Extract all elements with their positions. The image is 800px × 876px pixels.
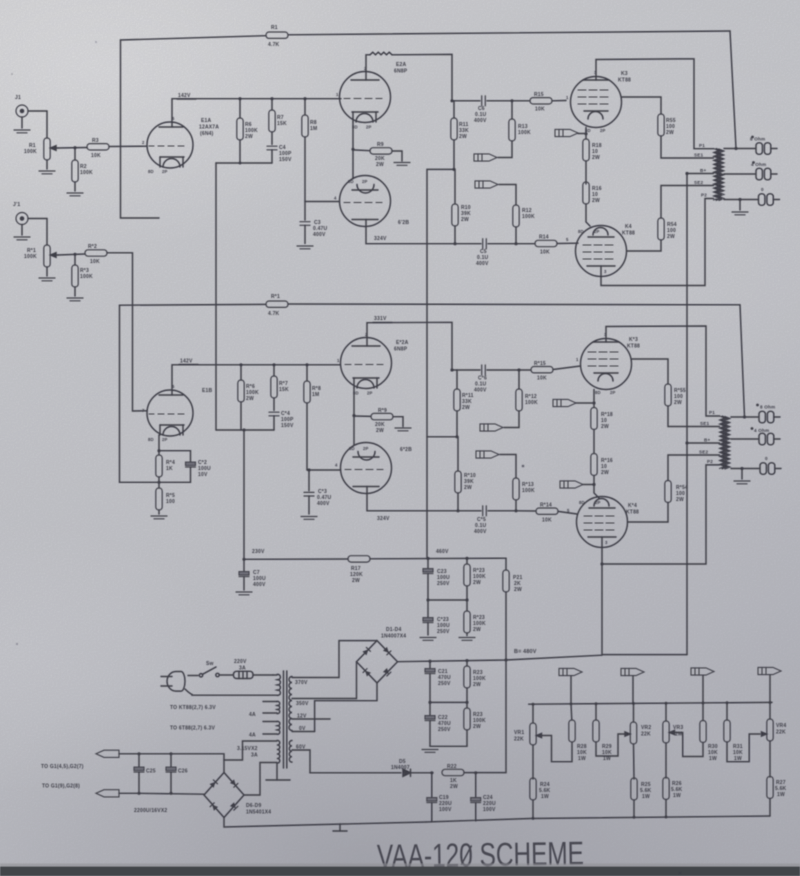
capacitor C'5: [474, 506, 516, 535]
title VAA-120 SCHEME: [377, 834, 585, 874]
wire B+ node ch2: [216, 429, 274, 431]
resistor R2: [72, 148, 93, 191]
capacitor C6: [452, 96, 512, 124]
tap 0V: [292, 726, 315, 732]
node mid 480V stack: [430, 701, 467, 703]
heater winding KT88: [170, 701, 280, 718]
resistor R29: [593, 704, 628, 762]
feedback rail R*1 resistor: [120, 294, 741, 317]
resistor R28: [569, 704, 587, 762]
terminal 8 Ohm: [750, 136, 777, 155]
switch Sw: [188, 661, 219, 677]
LV winding 3.15Vx2: [237, 740, 280, 763]
resistor R11: [451, 101, 469, 170]
wire V2B grid: [305, 201, 340, 203]
tap 12V: [292, 714, 330, 720]
wire K'4 g2 to R'54: [628, 503, 669, 523]
bias secondary winding: [289, 741, 292, 763]
wire 4 ohm tap ch2: [731, 438, 758, 440]
wire wiper ch2: [58, 254, 85, 255]
tube V'2A upper triode: [337, 332, 392, 396]
wire LV to bridge right: [244, 763, 277, 796]
wire 4 ohm tap: [724, 173, 755, 175]
resistor R26: [663, 743, 683, 817]
connector to R'13: [476, 451, 499, 458]
ground R'9 return: [395, 428, 411, 431]
wire R'2 to V1B grid: [107, 253, 147, 411]
resistor R1 4.7K feedback: [121, 25, 731, 48]
connector TO G1(9),G2(8): [42, 784, 139, 797]
tube V1A 12AX7: [142, 116, 193, 174]
potentiometer VR4: [762, 703, 787, 742]
connector bias 2: [621, 668, 644, 703]
resistor R'4: [156, 455, 175, 488]
resistor P21: [503, 558, 523, 660]
wire V'2B plate to C'5: [367, 493, 481, 511]
transformer T1 output: [714, 149, 725, 201]
wire 460V rail: [370, 557, 506, 560]
resistor R'5: [156, 488, 175, 514]
tap 60V bias: [292, 745, 401, 773]
ground under R*23: [459, 638, 475, 641]
capacitor C4: [267, 145, 292, 163]
wire K'3 plate to P1: [606, 326, 720, 416]
wire K3 plate to P1: [596, 59, 714, 149]
capacitor C25: [134, 754, 156, 794]
resistor R'11: [454, 370, 474, 437]
ground under C7: [236, 592, 252, 595]
tube K'4 KT88 lower inverted: [567, 497, 628, 548]
node dots on 142V rail: [238, 97, 241, 100]
bias rail bottom: [426, 816, 770, 822]
resistor R'8: [304, 365, 321, 470]
potentiometer R1: [24, 138, 58, 169]
capacitor C5: [476, 239, 516, 267]
wire V2A plate with grid-stopper zigzag: [366, 52, 452, 101]
ground R9 return: [394, 163, 410, 166]
resistor R9: [353, 142, 402, 168]
heater winding 6T88: [170, 721, 280, 738]
tap 370V: [292, 641, 377, 686]
tube V1B 12AX7: [142, 384, 193, 442]
wire 230V drop ch2: [243, 430, 245, 559]
wire feedback to 8ohm ch2: [740, 305, 745, 417]
wire to 460V drop: [427, 169, 454, 558]
wire B+ main vertical: [686, 174, 688, 444]
node mid 460V stack: [428, 599, 467, 601]
wire K3 cathode: [585, 128, 587, 140]
resistor R'3: [72, 254, 93, 296]
resistor R7: [269, 99, 287, 145]
tube V2B lower triode inverted: [334, 176, 391, 227]
connector bias 4: [758, 667, 781, 702]
wire K4 g2 to R54: [627, 240, 661, 251]
wire V1B plate to rail: [172, 365, 340, 391]
feedback wire vertical ch1: [121, 40, 160, 218]
terminal 4 Ohm ch2: [751, 427, 780, 445]
ground under R'5: [151, 516, 167, 519]
connector bias 1: [559, 668, 582, 704]
wire V2A cathode chain: [352, 122, 354, 179]
wire bridge output rail: [398, 655, 603, 662]
resistor R23 upper: [464, 661, 486, 703]
resistor R'16: [591, 454, 613, 499]
wire V'2A cathode chain: [353, 388, 355, 445]
wire V'2A plate: [367, 322, 452, 370]
resistor R'13: [500, 455, 535, 511]
connector to R13: [474, 154, 497, 161]
connector to R'12: [480, 424, 503, 431]
ground under R'3: [67, 298, 83, 301]
wire B+ vertical lower: [686, 443, 688, 655]
wire bridge bottom return: [315, 683, 377, 732]
resistor R'12: [504, 370, 538, 428]
ground under C3: [297, 246, 313, 249]
wire feedback ch2 vertical: [120, 305, 160, 482]
tube K4 KT88 lower inverted: [566, 226, 627, 277]
node R11/R10: [452, 168, 455, 171]
wire B+ node ch1: [216, 162, 272, 164]
wire V'2B grid: [307, 469, 341, 471]
potentiometer R'1: [24, 245, 58, 276]
resistor R*23 lower: [464, 600, 486, 636]
wire R'11 to 460V drop: [427, 436, 457, 438]
resistor R23 lower: [464, 702, 486, 746]
wire K4 plate to P2: [601, 199, 714, 286]
tube V'2B lower triode inverted: [335, 443, 392, 494]
wire LV to bridge top: [224, 741, 277, 773]
resistor R30: [700, 703, 718, 762]
ground under R1: [39, 171, 55, 174]
resistor R55: [658, 114, 714, 158]
wire wiper to grid: [58, 147, 87, 150]
wire V1B cathode: [158, 435, 160, 455]
resistor R54: [658, 186, 714, 241]
resistor R16: [583, 182, 602, 226]
wire 8 ohm tap: [724, 148, 755, 150]
wire J1 to R1: [28, 111, 47, 138]
resistor R3: [87, 138, 109, 159]
node dot C'6: [450, 368, 453, 371]
resistor R12: [499, 185, 535, 244]
ground at 0 tap ch2: [734, 469, 750, 484]
capacitor C'3: [304, 470, 332, 514]
wire V2B plate to C5: [366, 226, 481, 243]
resistor R'2: [85, 244, 107, 265]
transformer T2 output: [720, 416, 731, 469]
resistor R10: [452, 169, 471, 243]
terminal 0: [759, 187, 780, 205]
ground under R'1: [39, 278, 55, 281]
node dot C6: [450, 99, 453, 102]
resistor R'6: [238, 365, 259, 430]
ground under C'3: [301, 517, 317, 520]
resistor R27: [767, 741, 787, 816]
connector bias 3: [691, 668, 714, 703]
capacitor C3: [300, 202, 328, 244]
wire R3 to V1A grid: [109, 145, 147, 147]
resistor R22: [442, 764, 464, 790]
capacitor C26: [166, 754, 188, 794]
resistor R25: [631, 744, 652, 817]
resistor R13: [498, 101, 531, 158]
diode D5: [391, 759, 433, 776]
tube K3 KT88 upper: [566, 70, 622, 133]
tube V2A upper triode: [336, 66, 391, 130]
wire 8 ohm tap ch2: [731, 416, 758, 418]
bridge D1-D4: [357, 627, 407, 683]
resistor R17: [348, 556, 370, 584]
resistor R15: [512, 92, 566, 113]
wire B+ tap: [687, 173, 714, 175]
heater DC rail top: [139, 754, 224, 760]
potentiometer VR1: [514, 704, 542, 745]
wire 0 tap ch2: [731, 468, 759, 470]
transformer bottom bar: [266, 763, 290, 780]
wire K3 g2 to R55: [622, 97, 662, 114]
bridge D6-D9: [204, 773, 271, 818]
wiper loop R30-VR3: [674, 733, 703, 757]
terminal 0 ch2: [760, 456, 781, 474]
resistor R'9: [354, 408, 403, 434]
resistor R8: [302, 99, 318, 202]
capacitor C19: [427, 773, 452, 822]
transformer TR primary: [192, 674, 280, 695]
ground under C*23: [420, 638, 436, 641]
connector to K'3 cathode: [553, 399, 576, 406]
ground under C22: [422, 750, 438, 753]
tube K'3 KT88 upper: [576, 332, 632, 395]
heater DC rail bottom: [139, 792, 204, 795]
wiper loop R28-VR1: [541, 736, 572, 762]
mains plug: [161, 672, 192, 695]
resistor R'10: [455, 437, 476, 511]
wire 230V drop: [215, 163, 217, 430]
node wiper junction: [73, 146, 76, 149]
jack J1: [14, 95, 30, 133]
ground at 0 tap: [732, 200, 748, 215]
potentiometer VR2: [625, 704, 651, 745]
capacitor C'2 bypass loop: [159, 451, 211, 483]
bias rail top: [529, 702, 772, 704]
tap 350V: [292, 662, 357, 707]
photo bottom edge strip: [0, 867, 800, 876]
connector to R12: [475, 181, 498, 188]
resistor R'54: [665, 455, 720, 503]
resistor R*23 upper: [464, 558, 486, 600]
resistor R14: [516, 235, 578, 256]
wire 230V rail: [244, 558, 348, 560]
resistor R'15: [519, 361, 581, 382]
ground on bottom rail: [333, 824, 347, 831]
terminal 4 Ohm: [751, 161, 777, 180]
wire K'4 plate node down: [602, 564, 687, 655]
wire R22 to B rail: [464, 660, 506, 773]
capacitor C24: [471, 773, 496, 821]
connector TO G1(4,5),G2(7): [41, 750, 139, 770]
resistor R18: [583, 139, 602, 184]
resistor R'7: [271, 365, 289, 411]
wire V1A plate to rail: [172, 99, 341, 123]
transformer TR core: [284, 671, 287, 768]
resistor R31: [724, 703, 760, 762]
wire K'3 g2 to R'55: [632, 359, 669, 384]
wire feedback to 8ohm tap: [730, 31, 736, 149]
capacitor C*23: [423, 600, 450, 635]
resistor R24: [530, 745, 551, 818]
fuse 220V 3A: [219, 659, 273, 679]
terminal 8 Ohm ch2: [756, 404, 780, 423]
capacitor C21: [425, 661, 451, 702]
capacitor C7: [239, 559, 266, 590]
jack J'1: [13, 202, 30, 240]
wire K'4 plate to P2: [602, 465, 720, 564]
wire B+ tap ch2: [687, 442, 720, 444]
HV secondary winding: [289, 677, 292, 731]
wire bridge ground return: [224, 818, 426, 828]
potentiometer VR3: [663, 703, 684, 743]
node bottom 480V stack: [430, 745, 467, 747]
resistor R'18: [591, 408, 613, 454]
capacitor C'6: [452, 365, 519, 394]
resistor R'55: [665, 384, 720, 427]
connector to K'4 cathode: [560, 481, 583, 488]
wire 0 tap: [724, 199, 758, 201]
capacitor C'4: [269, 411, 294, 430]
connector to K3 cathode: [555, 129, 578, 136]
ground under R2: [67, 193, 83, 196]
capacitor C22: [425, 702, 451, 746]
wire J'1 to R'1: [28, 219, 47, 246]
resistor R'14: [516, 503, 577, 524]
resistor R6: [237, 99, 258, 163]
capacitor C23: [423, 559, 450, 601]
wire K'3 cathode: [593, 390, 595, 408]
